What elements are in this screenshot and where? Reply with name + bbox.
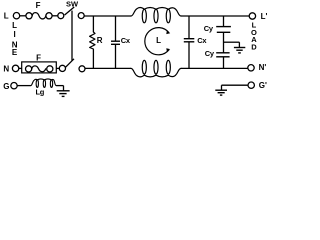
svg-text:Cx: Cx [197,36,207,45]
svg-text:Cy: Cy [204,24,214,33]
svg-text:D: D [251,43,257,52]
svg-text:N: N [3,64,9,73]
svg-text:G: G [3,82,9,91]
svg-text:E: E [12,48,18,57]
svg-text:L: L [12,21,17,30]
svg-text:I: I [13,30,15,39]
svg-text:Cx: Cx [121,36,131,45]
svg-text:G': G' [259,81,267,90]
svg-text:F: F [36,54,41,63]
svg-text:L': L' [261,12,268,21]
svg-text:R: R [97,36,103,45]
svg-text:SW: SW [66,0,79,9]
svg-text:Lg: Lg [36,87,45,96]
svg-text:Cy: Cy [205,49,215,58]
svg-text:N': N' [259,63,267,72]
svg-text:L: L [4,12,9,21]
svg-text:L: L [156,36,161,45]
svg-text:F: F [36,1,41,10]
